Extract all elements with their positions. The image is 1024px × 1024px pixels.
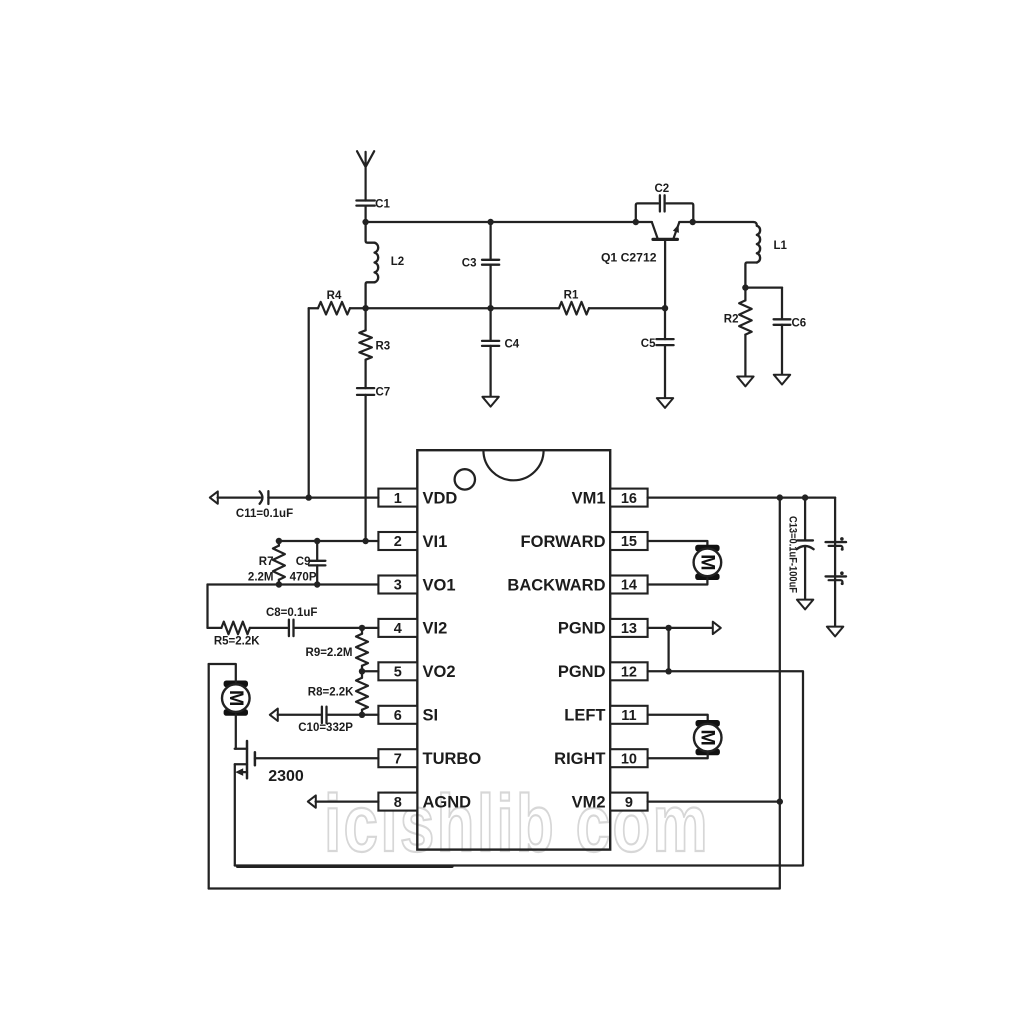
junction R9 top — [359, 625, 365, 631]
svg-text:12: 12 — [621, 665, 637, 681]
junction R8 bottom — [359, 712, 365, 718]
pin 4 VI2 — [378, 619, 447, 638]
svg-text:C8=0.1uF: C8=0.1uF — [266, 607, 317, 619]
transistor Q2 2300 (MOSFET) — [235, 741, 304, 785]
svg-text:TURBO: TURBO — [423, 750, 482, 768]
arrow AGND — [308, 795, 316, 807]
wire VO1 row — [208, 583, 379, 585]
capacitor C9 — [290, 541, 326, 585]
ground under C5 — [657, 398, 673, 408]
svg-text:2300: 2300 — [268, 768, 304, 785]
wire top rail left — [366, 221, 636, 223]
svg-text:R8=2.2K: R8=2.2K — [308, 686, 354, 698]
svg-text:470P: 470P — [290, 572, 317, 584]
svg-text:VI2: VI2 — [423, 620, 448, 638]
svg-text:2: 2 — [394, 534, 402, 550]
svg-text:11: 11 — [621, 708, 636, 724]
svg-text:13: 13 — [621, 621, 637, 637]
pin 3 VO1 — [378, 576, 455, 595]
pin 7 TURBO — [378, 749, 481, 768]
svg-text:PGND: PGND — [558, 663, 606, 681]
svg-text:R2: R2 — [724, 314, 739, 326]
svg-text:9: 9 — [625, 795, 633, 811]
svg-text:C3: C3 — [462, 257, 477, 269]
resistor R3 — [359, 308, 390, 388]
pin 2 VI1 — [378, 532, 447, 551]
svg-text:M: M — [225, 690, 247, 706]
svg-text:16: 16 — [621, 491, 637, 507]
junction PGND link top — [665, 625, 671, 631]
svg-text:7: 7 — [394, 751, 402, 767]
resistor R9 — [306, 628, 368, 671]
capacitor C5 — [641, 308, 674, 398]
svg-text:VI1: VI1 — [423, 533, 448, 551]
capacitor C12 (electrolytic pair top) — [826, 498, 846, 627]
wire BACKWARD row — [648, 579, 708, 585]
motor M2 (right top) — [694, 545, 722, 580]
wire arrow to pin8 — [316, 800, 379, 802]
svg-text:VM1: VM1 — [572, 489, 606, 507]
capacitor C2 — [636, 183, 694, 222]
wire motor M1 top — [209, 664, 236, 682]
wire TURBO row — [255, 757, 379, 759]
svg-text:15: 15 — [621, 534, 637, 550]
wire PGND link — [667, 628, 669, 671]
capacitor C4 — [482, 308, 520, 397]
svg-text:1: 1 — [394, 491, 402, 507]
pin 6 SI — [378, 706, 438, 725]
capacitor C8 — [266, 607, 317, 636]
resistor R7 — [248, 541, 285, 585]
node A (antenna/VDD rail junction) — [362, 219, 368, 225]
junction VM2 / VM1 loop — [777, 798, 783, 804]
svg-text:VO1: VO1 — [423, 576, 456, 594]
ground under C4 — [482, 397, 498, 407]
wire RIGHT row — [648, 753, 708, 758]
svg-text:6: 6 — [394, 708, 402, 724]
antenna — [357, 151, 374, 200]
junction — [487, 219, 493, 225]
junction C7 line / VI1 — [362, 538, 368, 544]
arrow SI — [270, 709, 278, 721]
pin 12 PGND — [558, 662, 648, 681]
pin 1 VDD — [378, 489, 457, 508]
svg-text:AGND: AGND — [423, 793, 472, 811]
wire left rail — [208, 664, 210, 889]
wire PGND13 row — [648, 627, 714, 629]
pin 15 FORWARD — [521, 532, 648, 551]
svg-text:R9=2.2M: R9=2.2M — [306, 647, 353, 659]
capacitor C7 — [357, 387, 390, 399]
motor M3 (right bottom) — [694, 720, 722, 755]
svg-text:R3: R3 — [376, 341, 391, 353]
wire node D to C6 — [745, 286, 782, 288]
svg-text:10: 10 — [621, 751, 637, 767]
resistor R5 — [208, 622, 288, 648]
capacitor C6 — [774, 288, 807, 375]
resistor R2 — [724, 288, 752, 377]
svg-text:C9: C9 — [296, 556, 311, 568]
wire VM1 loop — [209, 498, 780, 889]
wire LEFT row — [648, 715, 708, 723]
wire PGND12 loop — [235, 671, 803, 865]
svg-text:C6: C6 — [792, 317, 807, 329]
inductor L2 — [366, 222, 405, 308]
svg-text:M: M — [697, 729, 719, 745]
svg-text:VM2: VM2 — [572, 793, 606, 811]
svg-text:C11=0.1uF: C11=0.1uF — [236, 508, 293, 520]
pin 11 LEFT — [564, 706, 647, 725]
svg-text:RIGHT: RIGHT — [554, 750, 605, 768]
junction C9 bottom — [314, 581, 320, 587]
wire FORWARD row — [648, 541, 708, 547]
svg-text:R4: R4 — [327, 290, 342, 302]
svg-text:C4: C4 — [505, 339, 520, 351]
wire R4 to VDD row — [308, 308, 310, 497]
wire arrow to C11 — [218, 496, 261, 498]
junction mid rail / C3 / C4 — [487, 305, 493, 311]
capacitor C14 (electrolytic pair bottom) — [826, 571, 846, 585]
pin 16 VM1 — [572, 489, 648, 508]
junction R8 top — [359, 668, 365, 674]
motor M1 (left) — [222, 681, 250, 716]
wire C11 to pin1 — [268, 496, 378, 498]
resistor R1 — [559, 290, 665, 315]
capacitor C13 — [787, 498, 814, 600]
node C (R1/Q1 base/C5) — [662, 305, 668, 311]
svg-text:4: 4 — [394, 621, 402, 637]
svg-text:L1: L1 — [774, 240, 788, 252]
wire arrow to C10 — [278, 714, 322, 716]
capacitor C11 — [236, 491, 293, 520]
wire MOSFET source down — [234, 764, 236, 865]
wire VI1 row — [279, 540, 379, 542]
svg-text:Q1 C2712: Q1 C2712 — [601, 251, 657, 265]
svg-text:3: 3 — [394, 578, 402, 594]
wire mid rail — [366, 307, 559, 309]
wire VO1 feedback down — [206, 585, 208, 628]
svg-text:R5=2.2K: R5=2.2K — [214, 636, 260, 648]
resistor R8 — [308, 671, 368, 715]
capacitor C10 — [298, 707, 353, 734]
junction VM1 loop — [777, 494, 783, 500]
resistor R4 — [309, 290, 366, 314]
svg-text:2.2M: 2.2M — [248, 572, 274, 584]
wire rough bottom overlay — [238, 865, 453, 868]
junction C9 top — [314, 538, 320, 544]
svg-text:BACKWARD: BACKWARD — [507, 576, 605, 594]
svg-text:C13=0.1uF-100uF: C13=0.1uF-100uF — [787, 516, 799, 593]
ground under C6 — [774, 375, 790, 385]
pin 10 RIGHT — [554, 749, 647, 768]
svg-text:LEFT: LEFT — [564, 707, 605, 725]
svg-text:SI: SI — [423, 707, 439, 725]
svg-text:5: 5 — [394, 665, 402, 681]
svg-text:R7: R7 — [259, 556, 274, 568]
node B (L2/R3/R4 junction) — [362, 305, 368, 311]
junction R7 bottom — [276, 581, 282, 587]
junction PGND link bottom — [665, 668, 671, 674]
capacitor C1 — [356, 199, 390, 223]
svg-text:C1: C1 — [375, 199, 390, 211]
transistor Q1 — [601, 222, 693, 308]
svg-text:C5: C5 — [641, 338, 656, 350]
junction rail/Q1 collector — [633, 219, 639, 225]
junction R7 top — [276, 538, 282, 544]
ground under C13 — [797, 600, 813, 610]
wire C10 to pin6 — [327, 714, 379, 716]
ground under R2 — [737, 377, 753, 387]
wire motor M1 bottom to MOSFET drain — [235, 715, 237, 749]
capacitor C3 — [462, 222, 499, 308]
pin 14 BACKWARD — [507, 576, 647, 595]
svg-text:PGND: PGND — [558, 620, 606, 638]
svg-text:M: M — [696, 554, 718, 570]
svg-text:VDD: VDD — [423, 489, 458, 507]
svg-text:14: 14 — [621, 578, 637, 594]
wire C8 to pin4 — [294, 627, 379, 629]
svg-text:C2: C2 — [654, 183, 669, 195]
ground under electrolytics — [827, 627, 843, 637]
junction rail/Q1 emitter — [690, 219, 696, 225]
arrow input pin1 — [210, 491, 218, 503]
junction R4 line / pin1 wire — [306, 494, 312, 500]
wire VM1 row — [648, 496, 836, 498]
svg-text:C10=332P: C10=332P — [298, 722, 353, 734]
pin 5 VO2 — [378, 662, 455, 681]
svg-text:R1: R1 — [564, 290, 579, 302]
arrow PGND — [713, 622, 721, 634]
pin 8 AGND — [378, 793, 471, 812]
wire rail to L1 — [693, 221, 754, 223]
wire VO2 row — [362, 670, 378, 672]
pin 9 VM2 — [572, 793, 648, 812]
wire C7 to VI1 row — [364, 395, 366, 541]
svg-text:C7: C7 — [376, 387, 391, 399]
wire VM2 row — [648, 800, 780, 802]
node D (L1/R2/C6) — [742, 284, 748, 290]
pin 13 PGND — [558, 619, 648, 638]
junction C13 top — [802, 494, 808, 500]
svg-text:FORWARD: FORWARD — [521, 533, 606, 551]
svg-text:L2: L2 — [391, 256, 404, 268]
svg-text:VO2: VO2 — [423, 663, 456, 681]
inductor L1 — [745, 222, 787, 288]
op-amp U1 (16-pin IC body) — [417, 450, 610, 849]
svg-text:8: 8 — [394, 795, 402, 811]
